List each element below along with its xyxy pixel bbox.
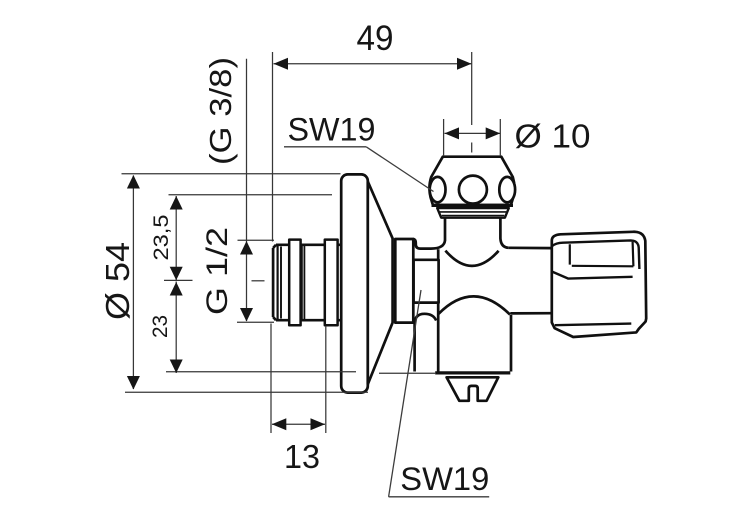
- body right wall: [510, 315, 513, 372]
- dim 13 ext left: [270, 324, 272, 434]
- stem bottom line: [510, 312, 552, 315]
- arrow o10 left: [445, 127, 460, 139]
- dim 23,5 ext top: [169, 194, 333, 196]
- dim 13 line: [272, 423, 325, 425]
- dim G38 line: [246, 59, 248, 321]
- arrow 49 right: [457, 58, 472, 70]
- arrow o54 down: [127, 376, 140, 390]
- body left wall: [437, 249, 440, 371]
- arrow 23 up: [170, 282, 183, 296]
- dim 23 line: [175, 282, 177, 374]
- body bottom thin extension: [379, 372, 436, 374]
- svg-text:Ø 10: Ø 10: [515, 118, 591, 155]
- stem top line: [509, 246, 552, 249]
- dim 49 line: [274, 63, 472, 65]
- svg-text:SW19: SW19: [288, 112, 376, 148]
- arrow 13 left: [272, 418, 287, 430]
- svg-text:(G 3/8): (G 3/8): [203, 57, 238, 165]
- svg-text:23,5: 23,5: [149, 214, 173, 260]
- label SW19 top underline: [284, 146, 366, 148]
- dim 49 ext left: [272, 52, 274, 242]
- handle grip recess: [570, 242, 634, 267]
- arrow 23 down: [170, 360, 183, 374]
- spout arch bump: [415, 314, 437, 372]
- svg-text:SW19: SW19: [400, 461, 489, 497]
- inlet end inner line: [277, 246, 279, 319]
- dim 13 ext right: [325, 326, 327, 433]
- arrow 23,5 down: [170, 267, 183, 281]
- dim 49 ext right centerline: [471, 52, 473, 153]
- dim 23,5 line: [175, 196, 177, 280]
- cap washer: [437, 208, 509, 218]
- rosette nut: [395, 239, 413, 323]
- dim o10 line: [445, 132, 501, 134]
- arrow o54 up: [127, 175, 140, 189]
- cap band bottom edge: [432, 204, 514, 207]
- cap hex SW19: [429, 157, 514, 205]
- body neck channel: [413, 239, 445, 249]
- body lower dome arc: [439, 296, 510, 314]
- dim o10 ext left: [443, 119, 445, 156]
- svg-text:23: 23: [148, 315, 172, 338]
- side outlet nub SW19: [414, 260, 439, 303]
- cap hole center: [459, 176, 487, 204]
- body bottom face: [435, 371, 510, 374]
- threaded inlet pipe G1/2 core: [273, 245, 340, 320]
- svg-text:Ø 54: Ø 54: [99, 242, 136, 320]
- label SW19 bottom leader: [389, 290, 421, 497]
- centerline tick pipe: [252, 280, 265, 282]
- valve top pipe left edge: [444, 218, 447, 241]
- thread double line: [302, 246, 305, 320]
- svg-text:13: 13: [284, 439, 320, 476]
- arrow G12 down: [240, 308, 253, 322]
- svg-text:49: 49: [357, 19, 394, 58]
- centerline tick left: [164, 279, 193, 281]
- thread lines: [280, 247, 282, 319]
- label SW19 top leader: [366, 147, 433, 192]
- label SW19 bottom underline: [389, 496, 490, 498]
- arrow 49 left: [274, 58, 289, 70]
- dim o10 ext right: [499, 119, 501, 156]
- valve top pipe right edge with flare: [500, 218, 508, 248]
- arrow 23,5 up: [170, 196, 183, 210]
- arrowheads: [127, 58, 500, 431]
- arrow G12 up: [240, 241, 253, 255]
- dim 23 ext bottom: [166, 371, 356, 373]
- wall rosette plate: [341, 174, 368, 392]
- dim o54 line: [132, 176, 134, 390]
- handle top crease: [552, 240, 640, 269]
- dim G12 ext top: [238, 239, 275, 241]
- handle mid crease: [552, 272, 633, 279]
- dim G12 ext bottom: [237, 321, 274, 323]
- thread ring band 1: [289, 240, 300, 326]
- cap washer inner lines: [440, 212, 507, 216]
- arrow o10 right: [486, 127, 501, 139]
- dim o54 ext top: [122, 173, 341, 175]
- svg-text:G 1/2: G 1/2: [201, 227, 234, 315]
- thread ring band 2: [325, 240, 338, 326]
- spout mouth with notch: [447, 377, 499, 401]
- arrow 13 right: [311, 418, 326, 430]
- handle knob outline: [552, 232, 646, 337]
- body upper sag arc: [445, 251, 498, 266]
- dim o54 ext bottom: [125, 391, 368, 393]
- handle bottom crease: [555, 324, 632, 326]
- rosette cone: [368, 182, 393, 385]
- cap hole left: [430, 177, 446, 202]
- cap hole right: [499, 177, 515, 202]
